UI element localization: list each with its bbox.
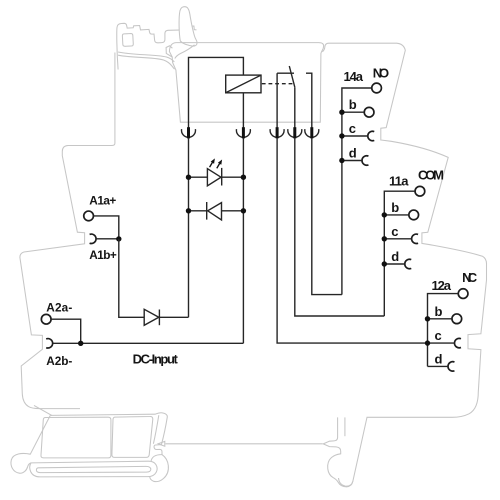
terminal 11a circle (415, 186, 425, 196)
LED arrow 1 (210, 158, 215, 167)
terminal NC d socket arc (448, 362, 454, 371)
svg-text:A1a+: A1a+ (89, 194, 116, 208)
wire: NC bus (428, 294, 459, 367)
wire: coil bottom to pin 2 (242, 93, 244, 128)
plug-in connector pin 2 (236, 127, 250, 138)
wire: A1a to junction (94, 216, 119, 239)
plug-in connector pin 4 (288, 127, 302, 138)
node LED row right (241, 175, 246, 180)
node COM d (382, 261, 387, 266)
plug-in connector pin 5 (305, 127, 319, 138)
node NC b (425, 316, 430, 321)
housing bottom-right foot clamp (323, 417, 353, 486)
housing relay compartment box (166, 43, 324, 123)
svg-text:b: b (349, 97, 357, 112)
housing left profile (A1/A2 steps) (20, 53, 115, 409)
relay coil K1 (226, 75, 261, 93)
node NO d (339, 158, 344, 163)
wire: NO bus (342, 88, 372, 295)
terminal A2a- circle (41, 314, 51, 324)
node diode row right (241, 208, 246, 213)
wire: NO c (342, 135, 368, 137)
node COM c (382, 236, 387, 241)
wire: A2b through junction to right column (53, 342, 244, 344)
svg-text:A2b-: A2b- (46, 354, 72, 368)
terminal COM d socket arc (405, 259, 411, 268)
terminal 12a circle (458, 289, 468, 299)
svg-text:c: c (349, 121, 356, 136)
plug-in connector pin 1 (182, 127, 196, 138)
wire: NO d (342, 160, 362, 162)
wire: NC b (428, 318, 452, 320)
wire: NO b (342, 111, 364, 113)
node diode row left (186, 208, 191, 213)
wire: COM bus (384, 191, 415, 316)
terminal NO c socket arc (368, 131, 374, 140)
svg-text:d: d (435, 351, 443, 366)
wire: COM d (384, 263, 405, 265)
wire: pin3 down and right to NC bus (277, 138, 427, 343)
wire: reverse diode row (189, 210, 244, 212)
wire: COM b (384, 214, 409, 216)
svg-text:14a: 14a (344, 69, 364, 84)
series diode DC input (144, 309, 159, 325)
svg-text:c: c (435, 328, 442, 343)
DIN rail top edge line (166, 443, 323, 445)
wire: left LED column (pin1 down to series diode row) (188, 138, 190, 317)
terminal NC b circle (452, 314, 462, 324)
node A1 junction (116, 236, 121, 241)
terminal A1a+ circle (84, 211, 94, 221)
housing bottom-left foot (11, 405, 168, 481)
terminal NO b circle (364, 107, 374, 117)
wire: A1 junction down to series diode (119, 239, 144, 317)
svg-text:A1b+: A1b+ (89, 248, 117, 262)
svg-text:c: c (391, 224, 398, 239)
LED indicator (207, 168, 221, 186)
node NC c (425, 340, 430, 345)
svg-text:COM: COM (418, 167, 444, 182)
svg-text:d: d (349, 146, 357, 161)
terminal COM c socket arc (412, 234, 418, 243)
wire: NC d (428, 365, 449, 367)
svg-text:DC-Input: DC-Input (133, 352, 179, 367)
terminal A2b- socket arc (46, 339, 52, 348)
dashed actuation link coil to contact (262, 83, 294, 85)
wire: COM c (384, 238, 411, 240)
wire: series diode to LED column (159, 316, 188, 318)
plug-in connector pin 3 (270, 127, 284, 138)
svg-text:b: b (435, 304, 443, 319)
wire: A1b to junction (96, 238, 119, 240)
node LED row left (186, 175, 191, 180)
node COM b (382, 212, 387, 217)
reverse-parallel diode (207, 202, 222, 220)
LED arrow 2 (217, 160, 222, 169)
wire: NC c (428, 342, 455, 344)
terminal NC c socket arc (455, 338, 461, 347)
svg-text:NC: NC (462, 270, 478, 285)
terminal 14a circle (372, 83, 382, 93)
wire: pin4 down and right to COM bus (295, 138, 385, 316)
svg-text:NO: NO (373, 65, 389, 80)
wire: right column (pin2 down to A2 row) (242, 138, 244, 343)
housing right profile (NO/COM/NC steps) (322, 43, 486, 486)
wire: pin5 down and right to NO bus (312, 138, 342, 295)
node NO b (339, 110, 344, 115)
housing DIN-rail clip (top) (117, 7, 197, 70)
svg-text:b: b (391, 200, 399, 215)
terminal A1b+ socket arc (90, 234, 96, 243)
node A2 junction (78, 341, 83, 346)
svg-text:d: d (391, 249, 399, 264)
terminal COM b circle (409, 210, 419, 220)
node NO c (339, 133, 344, 138)
relay changeover contact (277, 66, 312, 128)
svg-text:11a: 11a (389, 174, 409, 189)
svg-text:A2a-: A2a- (46, 300, 72, 314)
svg-text:12a: 12a (432, 278, 452, 293)
wire: A2a to junction (51, 319, 81, 343)
terminal NO d socket arc (362, 156, 368, 165)
wire: relay coil loop from pin 1 up and over to coil (189, 57, 244, 128)
wire: LED row (189, 176, 244, 178)
